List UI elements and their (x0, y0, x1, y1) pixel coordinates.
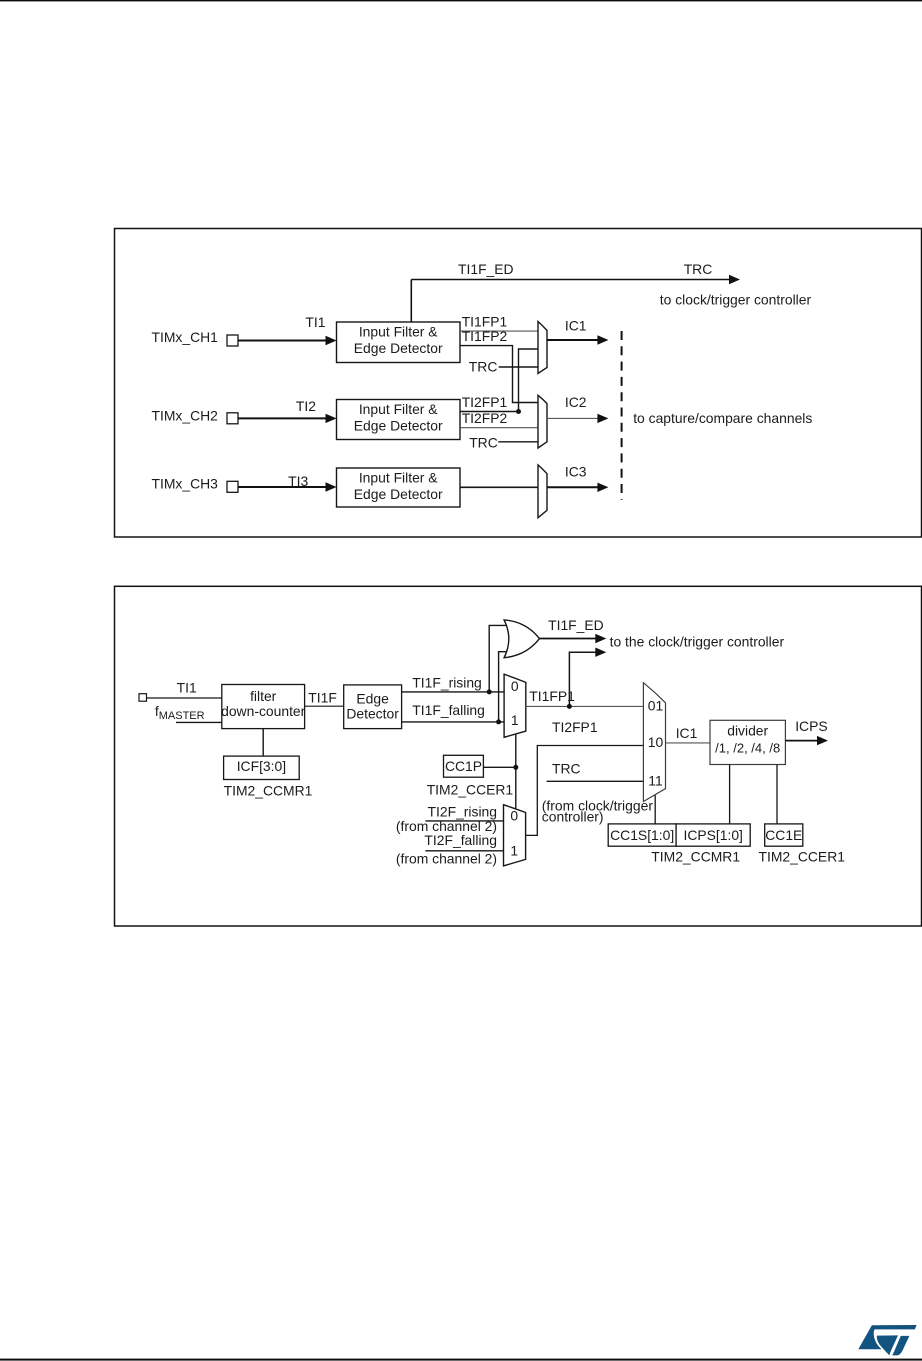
mux rising/falling channel2 (504, 805, 526, 866)
svg-text:Detector: Detector (346, 706, 399, 722)
wire TI1F (305, 705, 344, 707)
block filter down-counter (222, 685, 305, 729)
junction TI1F_rising (487, 689, 492, 694)
svg-text:TI1: TI1 (177, 680, 197, 696)
page top rule (0, 0, 922, 1)
wire divider to ICPS box (729, 765, 731, 824)
arrowhead TI3 into block (326, 482, 337, 491)
svg-text:CC1S[1:0]: CC1S[1:0] (610, 827, 674, 843)
svg-text:ICPS: ICPS (795, 718, 827, 734)
wire TI1F_ED out (540, 638, 597, 640)
mux IC2 select (538, 395, 547, 448)
svg-text:CC1E: CC1E (765, 827, 802, 843)
svg-text:IC1: IC1 (676, 725, 698, 741)
wire rising to OR gate (489, 625, 508, 692)
arrowhead TI1 into block (326, 336, 337, 345)
wire falling to OR gate (499, 652, 511, 722)
junction TI2FP1 (516, 409, 521, 414)
svg-text:to clock/trigger controller: to clock/trigger controller (660, 291, 812, 307)
svg-text:divider: divider (727, 723, 768, 739)
svg-text:(from channel 2): (from channel 2) (396, 850, 497, 866)
box CC1E (765, 824, 803, 846)
wire TI1 input (238, 340, 327, 342)
wire TI1F_rising (402, 691, 505, 693)
svg-text:TI1FP2: TI1FP2 (462, 328, 508, 344)
junction TI1F_falling (496, 719, 501, 724)
svg-text:0: 0 (511, 678, 519, 694)
svg-text:Input Filter &: Input Filter & (359, 469, 438, 485)
pad square TI1 (139, 694, 147, 702)
svg-text:TI3: TI3 (288, 473, 308, 489)
arrowhead TI1FP1 branch (595, 648, 606, 657)
wire TRC (547, 780, 644, 782)
wire TI3 input (238, 486, 327, 488)
box ICPS[1:0] (676, 824, 750, 846)
wire ICPS (785, 740, 818, 742)
svg-text:11: 11 (648, 773, 663, 789)
svg-text:TI1F_falling: TI1F_falling (412, 702, 485, 718)
svg-text:IC2: IC2 (565, 394, 587, 410)
svg-text:/1, /2, /4, /8: /1, /2, /4, /8 (715, 741, 780, 756)
wire divider to CC1E box (776, 765, 778, 824)
svg-text:TI2FP1: TI2FP1 (552, 719, 598, 735)
block Input Filter & Edge Detector CH2 (337, 400, 461, 440)
svg-text:TI1F_ED: TI1F_ED (458, 261, 514, 277)
svg-text:Edge Detector: Edge Detector (354, 486, 443, 502)
wire IC1 to divider (666, 742, 711, 744)
wire IC2 (547, 417, 598, 419)
wire IC1 (547, 339, 598, 341)
junction TI1FP1 (567, 704, 572, 709)
svg-text:down-counter: down-counter (221, 703, 306, 719)
svg-text:TI2FP2: TI2FP2 (462, 410, 508, 426)
mux IC1 select (538, 322, 547, 374)
wire TI2F_rising (425, 820, 503, 822)
ST logo (858, 1325, 916, 1355)
svg-text:10: 10 (648, 734, 664, 750)
svg-text:TI2: TI2 (296, 398, 316, 414)
svg-text:ICPS[1:0]: ICPS[1:0] (683, 827, 742, 843)
pad square CH3 (227, 481, 238, 492)
figure 2 frame (115, 586, 922, 926)
svg-text:TRC: TRC (684, 261, 713, 277)
wire CC1P select vertical (515, 734, 517, 809)
svg-text:TIMx_CH2: TIMx_CH2 (152, 407, 219, 423)
figure 1 frame (115, 229, 922, 538)
svg-text:TRC: TRC (469, 435, 498, 451)
wire TI2 input (238, 417, 327, 419)
wire TI1FP1 (460, 330, 538, 332)
wire filter to ICF (262, 729, 264, 757)
wire TI2FP1 up to mux1 (519, 349, 539, 412)
arrowhead TI2 into block (326, 414, 337, 423)
svg-text:TI2FP1: TI2FP1 (462, 394, 508, 410)
wire mux6 select to CC1S (654, 795, 656, 824)
arrowhead IC3 (597, 483, 608, 492)
svg-text:filter: filter (250, 688, 277, 704)
svg-text:TI1F_rising: TI1F_rising (412, 674, 481, 690)
arrowhead IC2 (597, 414, 608, 423)
wire CC1P to select (483, 766, 515, 768)
svg-text:to the clock/trigger controlle: to the clock/trigger controller (610, 634, 785, 650)
svg-text:controller): controller) (542, 808, 604, 824)
svg-text:Edge Detector: Edge Detector (354, 340, 443, 356)
wire TI1FP1 to big mux (526, 705, 644, 707)
wire TI1FP1 branch to controller (569, 652, 596, 706)
wire TI1F_ED vertical (410, 280, 412, 323)
wire IC3 (547, 486, 598, 488)
svg-text:fMASTER: fMASTER (155, 703, 205, 722)
wire fMASTER (176, 721, 222, 723)
svg-text:Edge Detector: Edge Detector (354, 417, 443, 433)
svg-text:TIM2_CCER1: TIM2_CCER1 (427, 781, 514, 797)
svg-text:1: 1 (511, 712, 519, 728)
page bottom rule (0, 1359, 922, 1361)
svg-text:Input Filter &: Input Filter & (359, 401, 438, 417)
block Edge Detector (344, 685, 402, 729)
box CC1P (444, 755, 484, 777)
wire TI1F_falling (402, 721, 505, 723)
mux rising/falling channel1 (504, 674, 526, 737)
wire TI1 (147, 697, 222, 699)
svg-text:TIMx_CH3: TIMx_CH3 (152, 476, 219, 492)
svg-text:IC3: IC3 (565, 463, 587, 479)
svg-text:Input Filter &: Input Filter & (359, 323, 438, 339)
wire TI1FP2 to channel2 mux (460, 346, 538, 403)
junction CC1P (513, 765, 518, 770)
svg-text:ICF[3:0]: ICF[3:0] (237, 758, 286, 774)
svg-text:Edge: Edge (356, 691, 389, 707)
mux IC3 select (538, 465, 547, 518)
block divider (710, 720, 785, 764)
mux CC1S input select (643, 683, 665, 802)
box ICF[3:0] (224, 756, 300, 779)
block Input Filter & Edge Detector CH1 (337, 322, 461, 363)
block Input Filter & Edge Detector CH3 (337, 468, 461, 507)
svg-text:TIM2_CCER1: TIM2_CCER1 (759, 849, 846, 865)
svg-text:1: 1 (510, 843, 518, 859)
pad square CH1 (227, 335, 238, 346)
svg-text:01: 01 (648, 698, 664, 714)
svg-text:TIM2_CCMR1: TIM2_CCMR1 (224, 782, 313, 798)
box CC1S[1:0] (608, 824, 676, 846)
svg-text:TRC: TRC (469, 359, 498, 375)
arrowhead IC1 (597, 335, 608, 344)
arrowhead TI1F_ED (595, 634, 606, 643)
wire TI2FP2 (460, 427, 538, 429)
svg-text:TIMx_CH1: TIMx_CH1 (152, 329, 219, 345)
arrowhead TRC (729, 275, 740, 284)
svg-text:TI1F: TI1F (308, 689, 337, 705)
arrowhead ICPS (817, 736, 828, 745)
svg-text:IC1: IC1 (565, 317, 587, 333)
svg-text:TIM2_CCMR1: TIM2_CCMR1 (651, 849, 740, 865)
svg-text:CC1P: CC1P (445, 758, 482, 774)
svg-text:0: 0 (510, 807, 518, 823)
svg-text:TI1FP1: TI1FP1 (529, 688, 575, 704)
wire TRC row2 (498, 441, 538, 443)
svg-text:to capture/compare channels: to capture/compare channels (633, 410, 812, 426)
wire block3 to mux3 (460, 486, 538, 488)
wire TI2F_falling (425, 850, 503, 852)
svg-text:TI2F_falling: TI2F_falling (424, 832, 497, 848)
svg-text:TI1F_ED: TI1F_ED (548, 617, 604, 633)
dashed boundary to capture/compare channels (621, 331, 623, 500)
pad square CH2 (227, 413, 238, 424)
wire TRC row1 (499, 366, 538, 368)
wire mux5 out up to TI2FP1 (526, 746, 644, 836)
OR gate (504, 620, 539, 658)
wire TI1F_ED / TRC horizontal (411, 279, 730, 281)
wire TI2FP1 (460, 411, 519, 413)
svg-text:TRC: TRC (552, 761, 581, 777)
svg-text:TI1: TI1 (305, 314, 325, 330)
